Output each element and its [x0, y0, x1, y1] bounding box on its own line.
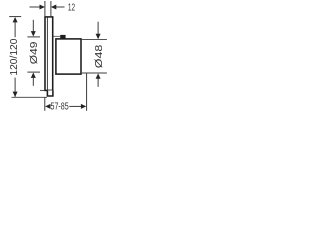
svg-text:12: 12: [68, 3, 75, 14]
dimension 57-85: left extension line: [44, 98, 46, 111]
plate bottom extension line: [40, 89, 44, 91]
svg-text:57-85: 57-85: [51, 102, 70, 113]
dimension 12: left leader with arrowhead: [30, 6, 41, 8]
handle (side view): [56, 39, 81, 74]
svg-text:Ø49: Ø49: [29, 41, 40, 64]
baseline extension line: [12, 96, 48, 98]
dimension 57-85: right arrowhead: [81, 104, 86, 109]
dimension 120/120: bottom arrowhead: [13, 92, 18, 97]
dimension 12: right leader with arrowhead: [51, 5, 56, 10]
dimension 120/120: top tick: [9, 16, 21, 18]
dimension diameter 49: up arrowhead: [31, 73, 36, 78]
dimension diameter 48: bottom extension line: [82, 72, 107, 74]
svg-text:Ø48: Ø48: [94, 44, 105, 68]
escutcheon plate (side view): [45, 17, 53, 91]
dimension diameter 48: up arrowhead: [96, 73, 101, 78]
dimension 120/120: lower shaft: [14, 78, 16, 97]
dimension diameter 49: lower tail: [32, 78, 34, 86]
dimension diameter 48: lower tail: [97, 78, 99, 87]
plate sleeve inner line: [46, 17, 48, 96]
dimension 120/120: top arrowhead: [13, 17, 18, 22]
dimension diameter 48: upper leader: [97, 22, 99, 35]
dimension diameter 48: top extension line: [82, 39, 107, 41]
dimension 120/120: upper shaft: [14, 22, 16, 38]
dimension diameter 48: down arrowhead: [96, 34, 101, 39]
dimension 57-85: right leader: [69, 105, 81, 107]
dimension diameter 49: bottom tick: [27, 71, 40, 73]
svg-text:120/120: 120/120: [9, 38, 20, 75]
dimension diameter 49: top tick: [27, 36, 40, 38]
select button on handle top: [60, 35, 65, 39]
dimension 12: left extension line: [44, 1, 46, 16]
dimension 57-85: left arrowhead: [45, 104, 50, 109]
button extension line: [53, 35, 60, 37]
plate lower sleeve box: [47, 90, 53, 96]
dimension 12: right extension line: [50, 1, 52, 16]
dimension diameter 49: upper leader: [32, 20, 34, 32]
dimension diameter 49: down arrowhead: [31, 31, 36, 36]
background: [0, 0, 118, 118]
dimension 57-85: right extension line: [86, 73, 88, 110]
